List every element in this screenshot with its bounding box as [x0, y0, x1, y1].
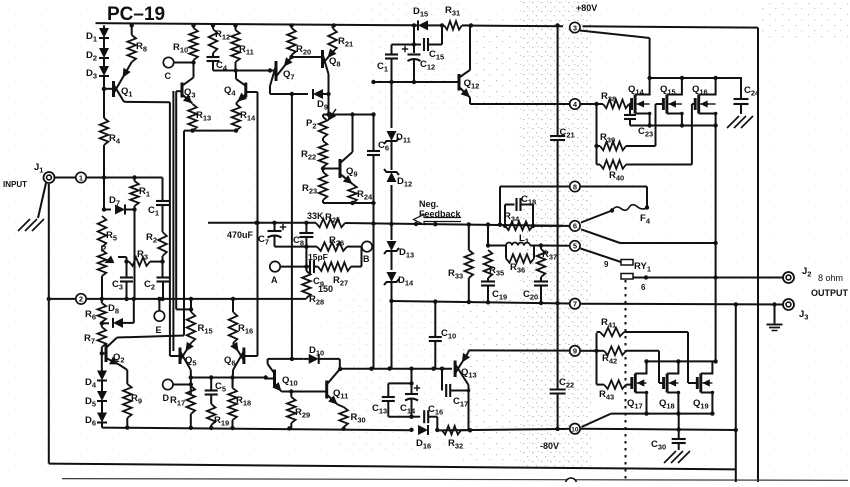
wire R39 to Q15 gate — [626, 104, 663, 146]
svg-text:6: 6 — [641, 283, 646, 292]
resistor R32 — [442, 426, 469, 451]
svg-text:8: 8 — [573, 182, 577, 191]
capacitor C13 — [372, 383, 412, 416]
resistor R37 — [537, 246, 558, 278]
capacitor C24 — [734, 77, 761, 114]
capacitor C12 — [402, 46, 435, 84]
wire P to node2 — [101, 276, 103, 299]
transistor Q4 — [224, 79, 258, 102]
wire Q7 base row — [213, 68, 276, 72]
resistor R13 — [188, 104, 211, 131]
wire rail to right border — [583, 26, 759, 27]
resistor R20 — [287, 25, 311, 59]
resistor R14 — [232, 102, 256, 131]
wire zener column to Q13 row — [387, 301, 391, 371]
wire node1 row — [87, 175, 163, 179]
svg-text:8 ohm: 8 ohm — [818, 273, 843, 283]
resistor R16 — [229, 299, 254, 343]
wire Q12 emitter to node4 row — [470, 98, 569, 105]
wire R43 to Q17 gate — [626, 384, 632, 386]
resistor R40 — [597, 160, 627, 182]
title PC-19 — [107, 4, 165, 25]
transistor Q1 — [102, 62, 133, 102]
wire D2-D3 — [103, 58, 105, 68]
label +80V — [576, 3, 597, 13]
capacitor C10 — [429, 303, 456, 368]
ground at J3 — [767, 305, 783, 331]
wire Q13 emitter down — [467, 385, 471, 430]
node 4 terminal — [570, 99, 580, 109]
wire R41 to Q19 gate — [624, 332, 697, 383]
wire node8 right to fuse — [581, 187, 648, 208]
capacitor C8 — [293, 223, 313, 267]
diode D3 — [86, 66, 109, 81]
svg-text:D: D — [163, 393, 170, 403]
svg-text:Neg.: Neg. — [419, 199, 439, 209]
node 6 terminal — [570, 221, 580, 231]
wire R2 to junction — [160, 256, 164, 264]
wire R38 gate node — [629, 103, 632, 105]
wire C1 to R2 — [162, 205, 164, 232]
resistor R3 — [124, 249, 162, 266]
svg-text:10: 10 — [571, 427, 579, 434]
wire D1-D2 — [103, 38, 105, 50]
svg-text:5: 5 — [573, 242, 577, 251]
wire Q5 collector down — [189, 370, 193, 394]
wire R7 to Q2 base — [100, 347, 104, 368]
svg-text:6: 6 — [573, 222, 577, 231]
svg-text:2: 2 — [79, 295, 83, 304]
speckle patch right of Q12 — [468, 18, 520, 108]
transistor Q5 — [170, 342, 197, 370]
capacitor C20 — [523, 277, 548, 303]
resistor R31 — [444, 5, 473, 30]
resistor R29 — [287, 392, 310, 429]
wire J3 column down — [735, 305, 737, 483]
capacitor C15 — [414, 23, 444, 61]
wire Q10 collector row — [268, 357, 304, 361]
wire Q7 base stub — [270, 70, 276, 72]
resistor R30 — [339, 407, 365, 429]
resistor R34 — [503, 211, 535, 230]
terminal C — [163, 57, 193, 81]
svg-text:9: 9 — [573, 347, 577, 356]
svg-text:150: 150 — [318, 284, 333, 294]
diode D7 — [104, 195, 137, 215]
capacitor C6 — [367, 115, 389, 369]
wire Q13 base row — [340, 367, 452, 371]
wire upper source rail — [630, 123, 718, 127]
wire R41-43 column — [596, 333, 598, 385]
wire left border — [48, 184, 50, 464]
wire R42 to Q18 gate — [626, 351, 664, 383]
diode D10 — [304, 345, 340, 364]
wire Q10 emitter node — [282, 389, 294, 393]
wire driver emitter row — [291, 391, 326, 393]
wire Q7 collector down — [268, 68, 272, 94]
inductor L1 — [488, 233, 543, 248]
resistor R11 — [231, 25, 254, 70]
capacitor C22 — [550, 303, 575, 429]
wire node6 diag to fuse — [581, 211, 612, 223]
wire Q1 collector run — [124, 101, 170, 103]
capacitor C11 — [377, 45, 398, 83]
label INPUT — [3, 180, 27, 189]
resistor R27 — [318, 247, 362, 288]
wire Q4 base column — [255, 92, 259, 356]
terminal D — [163, 379, 191, 403]
wire lower drain rail — [644, 359, 718, 363]
wire Q12 base row — [371, 80, 459, 84]
terminal E — [154, 299, 164, 335]
svg-text:1: 1 — [79, 173, 83, 182]
speckle patch mid — [340, 300, 460, 450]
svg-text:P: P — [101, 244, 107, 254]
wire +80V top rail — [96, 23, 564, 27]
transistor Q9 — [323, 152, 358, 184]
ground under J1 — [18, 219, 44, 231]
resistor R6 — [85, 299, 106, 322]
resistor R10 — [173, 25, 198, 64]
wire Q1 collector down column — [169, 102, 171, 356]
wire C11 top link — [392, 44, 415, 46]
node 2 terminal — [76, 294, 86, 304]
wire Q3 base column — [175, 91, 177, 309]
capacitor C5 — [205, 378, 226, 395]
wire tail column — [183, 131, 185, 336]
wire R13 R14 tail rail — [184, 128, 238, 132]
wire R1 bottom to node2 — [134, 206, 136, 299]
wire mid column extra — [172, 91, 174, 351]
resistor R23 — [302, 167, 327, 203]
resistor R4 — [100, 118, 121, 146]
diode D9 — [270, 89, 331, 112]
capacitor C1 — [148, 178, 169, 218]
relay RY1 contact b — [621, 274, 633, 280]
wire node1 to D7 node — [102, 178, 106, 212]
wire upper drain rail — [647, 76, 741, 80]
wire source rail to node10 — [582, 414, 612, 427]
label Neg Feedback — [419, 199, 462, 219]
wire R34 to node6 — [533, 225, 569, 227]
wire bias top row — [323, 112, 376, 116]
node 1 terminal — [76, 172, 86, 182]
transistor Q6 — [224, 342, 258, 370]
wire D5-D6 — [101, 401, 103, 414]
neg feedback arrow — [414, 215, 462, 225]
capacitor C17 — [442, 369, 469, 409]
resistor R5 — [98, 216, 117, 247]
wire J1 to node 1 — [55, 177, 75, 179]
wire D4-D5 — [101, 381, 103, 394]
wire node10 to right — [581, 427, 739, 432]
wire VAS column from D9 — [291, 94, 293, 359]
wire node8 left — [500, 187, 569, 225]
wire R20 to Q8 base — [292, 56, 323, 58]
node 8 terminal — [570, 181, 580, 191]
svg-text:7: 7 — [573, 300, 577, 309]
mosfet Q17 — [627, 361, 648, 413]
mosfet Q19 — [693, 361, 714, 413]
ground under C24 — [727, 116, 753, 128]
jack J2 — [783, 266, 843, 283]
svg-text:PC–19: PC–19 — [107, 4, 165, 25]
potentiometer P — [98, 244, 127, 277]
wire node2 row — [47, 297, 307, 301]
wire Q9 collector up — [352, 115, 354, 153]
node 7 terminal — [570, 299, 580, 309]
resistor R26 — [306, 235, 361, 251]
resistor R21 — [328, 25, 353, 52]
wire R35 column top — [486, 225, 490, 248]
wire node5 diag to relay — [581, 249, 622, 270]
ground under C30 — [664, 451, 690, 463]
diode D6 — [85, 413, 107, 428]
svg-text:A: A — [271, 275, 278, 285]
wire R4 to node1 — [103, 145, 105, 178]
resistor R41 — [597, 317, 625, 336]
transistor Q7 — [270, 57, 295, 86]
resistor R22 — [301, 138, 327, 171]
svg-text:INPUT: INPUT — [3, 180, 27, 189]
diode D14 — [384, 251, 414, 303]
transistor Q12 — [459, 70, 479, 98]
capacitor C9 — [306, 252, 327, 289]
resistor R9 — [123, 384, 142, 418]
wire Q11 emitter to R30 — [338, 405, 344, 408]
diode D15 — [413, 6, 435, 30]
node 5 terminal — [570, 241, 580, 251]
wire node7 to J3 — [581, 302, 783, 307]
speckle background band — [519, 0, 591, 468]
resistor R33 — [448, 224, 473, 302]
node 10 terminal — [570, 424, 580, 434]
capacitor C23 — [624, 104, 653, 139]
wire R9 to bottom rail — [126, 418, 128, 428]
resistor R18 — [228, 378, 251, 429]
svg-text:-80V: -80V — [540, 441, 559, 451]
wire right border — [757, 28, 759, 482]
diode D5 — [85, 391, 107, 409]
diode D8 — [102, 299, 134, 328]
potentiometer P2 — [306, 109, 336, 138]
resistor R8 — [127, 25, 147, 62]
diode D13 zener — [384, 224, 414, 260]
capacitor C4 — [207, 53, 228, 73]
wire node9 right column — [581, 349, 599, 353]
terminal A — [270, 261, 309, 285]
wire node7 row — [392, 299, 570, 305]
transistor Q10 — [266, 364, 298, 392]
resistor R12 — [209, 25, 231, 53]
wire Q6 collector down — [230, 370, 234, 388]
diode D11 zener — [384, 80, 411, 145]
transistor Q11 — [327, 369, 349, 404]
wire diode column top — [103, 25, 105, 30]
wire J1 ground lead — [38, 183, 46, 218]
fuse F4 — [610, 205, 651, 226]
capacitor C19 — [481, 278, 507, 302]
resistor R19 — [207, 395, 229, 428]
wire D10 corner down — [338, 359, 342, 371]
mosfet Q15 — [660, 78, 684, 126]
wire Q4 collector up — [235, 71, 237, 79]
wire output column — [713, 126, 717, 362]
resistor R15 — [187, 299, 213, 343]
node 3 terminal — [570, 22, 580, 32]
wire driver base row — [191, 375, 268, 379]
wire Q8 collector down — [328, 74, 330, 115]
capacitor C3 — [112, 262, 133, 299]
svg-text:E: E — [156, 325, 162, 335]
resistor R1 — [130, 178, 150, 207]
capacitor C2 — [144, 262, 170, 299]
wire R6-R7 node — [100, 321, 104, 327]
wire D3 to Q1 base node — [102, 76, 106, 118]
resistor R7 — [84, 327, 106, 347]
resistor R38 — [581, 91, 630, 108]
transistor Q3 — [176, 78, 195, 104]
capacitor C18 — [505, 194, 536, 226]
svg-text:33K: 33K — [307, 211, 324, 221]
capacitor C14 — [400, 369, 420, 419]
label -80V — [540, 441, 559, 451]
capacitor C16 — [412, 404, 444, 430]
wire page bottom line — [62, 479, 848, 481]
speckle patch bottom middle — [462, 300, 520, 460]
wire relay to J2 — [633, 275, 783, 292]
svg-text:C: C — [165, 71, 172, 81]
wire -80V rail — [102, 425, 569, 432]
relay RY1 contact a — [621, 260, 651, 274]
terminal B — [362, 241, 372, 264]
capacitor C30 — [651, 414, 686, 452]
svg-text:+80V: +80V — [576, 3, 597, 13]
wire node3 diagonal — [580, 31, 650, 79]
resistor R42 — [597, 347, 627, 366]
wire node6 diag to output — [581, 229, 716, 243]
wire Q2 emitter to R9 — [119, 365, 127, 385]
diode D12 zener — [384, 141, 412, 226]
diode D4 — [85, 368, 107, 390]
resistor R17 — [170, 386, 195, 414]
label OUTPUT — [811, 288, 849, 298]
wire node4 R39 column — [594, 102, 598, 165]
wire bottom border — [49, 464, 736, 470]
wire Q13 collector to node9 row — [469, 350, 570, 352]
mosfet Q18 — [659, 361, 680, 413]
partial circle bottom — [566, 478, 577, 487]
diode D1 — [86, 28, 109, 44]
transistor Q13 — [455, 352, 477, 385]
resistor R43 — [597, 380, 627, 401]
wire feedback row — [208, 221, 563, 227]
svg-text:B: B — [363, 254, 370, 264]
wire bias bottom row — [323, 201, 376, 205]
speckle patch top right — [370, 0, 850, 110]
resistor R2 — [146, 232, 167, 256]
mosfet Q16 — [692, 78, 717, 126]
wire R17 to rail — [190, 414, 192, 428]
svg-text:470uF: 470uF — [227, 230, 254, 240]
diode D16 — [416, 425, 431, 451]
wire R10 to Q3 collector — [193, 63, 195, 78]
resistor R36 — [506, 246, 534, 275]
wire Q10 collector up — [267, 359, 269, 364]
resistor R28 150 — [302, 267, 333, 307]
jack J3 — [783, 299, 808, 322]
wire Q2 collector to tail column — [117, 336, 184, 338]
diode D2 — [86, 48, 109, 63]
transistor Q2 — [102, 338, 125, 365]
resistor R35 — [484, 250, 505, 278]
svg-text:9: 9 — [604, 260, 609, 269]
wire R40 to Q16 gate — [626, 104, 695, 165]
wire L1 to node5 — [541, 245, 569, 247]
resistor R39 — [597, 132, 627, 150]
resistor R24 — [348, 184, 373, 203]
capacitor 470uF C7 — [227, 223, 306, 247]
capacitor C21 — [550, 26, 575, 303]
wire Q3 base link to R15 top — [176, 307, 193, 311]
wire D6 to -80V rail — [101, 423, 103, 428]
resistor R25 — [307, 211, 345, 227]
wire Q12 collector up — [469, 25, 471, 70]
svg-text:OUTPUT: OUTPUT — [811, 288, 849, 298]
node 9 terminal — [570, 346, 580, 356]
wire cap cluster vertical — [412, 25, 416, 53]
wire relay dotted coil line — [625, 280, 627, 482]
svg-text:3: 3 — [573, 23, 577, 32]
wire lower source rail — [611, 411, 715, 415]
mosfet Q14 — [628, 78, 651, 126]
jack J1 — [34, 162, 55, 183]
transistor Q8 — [323, 48, 341, 74]
